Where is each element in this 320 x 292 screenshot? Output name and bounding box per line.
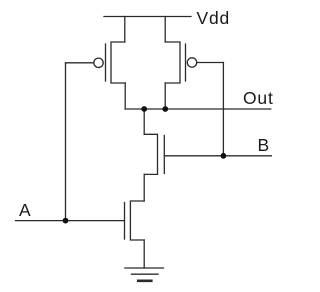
transistor Q2 (PMOS, right) bbox=[165, 42, 197, 83]
power rail Vdd bbox=[104, 16, 191, 18]
wire: Q1 gate to input A vertical bbox=[66, 62, 94, 64]
node: A junction bbox=[63, 218, 69, 224]
svg-text:Vdd: Vdd bbox=[197, 8, 231, 28]
wire: Q2 drain down to Out node bbox=[164, 83, 166, 109]
ground bbox=[125, 268, 164, 281]
wire: Q2 gate to input B vertical bbox=[197, 62, 224, 64]
wire: output net Out bbox=[125, 108, 271, 110]
transistor Q1 (PMOS, left) bbox=[94, 42, 125, 83]
wire: input B vertical run bbox=[222, 63, 224, 156]
wire: Q4 source to ground bbox=[143, 240, 145, 268]
wire: Q3 source to Q4 drain bbox=[143, 174, 145, 201]
wire: Out node down to Q3 drain bbox=[143, 109, 145, 134]
node: Out / Q3 drain junction bbox=[141, 106, 147, 112]
svg-text:Out: Out bbox=[243, 88, 274, 108]
wire: input B to Q3 gate bbox=[164, 155, 271, 157]
wire: Q1 drain down to Out node bbox=[124, 83, 126, 109]
wire: input A to Q4 gate bbox=[16, 220, 125, 222]
transistor Q4 (NMOS, lower) bbox=[125, 201, 145, 240]
svg-text:A: A bbox=[19, 200, 31, 220]
node: Out / Q2 drain junction bbox=[162, 106, 168, 112]
node: B junction bbox=[221, 153, 227, 159]
transistor Q3 (NMOS, upper) bbox=[144, 134, 164, 174]
wire: Vdd rail to Q1 source bbox=[124, 17, 126, 43]
wire: Vdd rail to Q2 source bbox=[164, 17, 166, 43]
svg-text:B: B bbox=[258, 135, 270, 155]
wire: input A vertical run bbox=[65, 63, 67, 221]
